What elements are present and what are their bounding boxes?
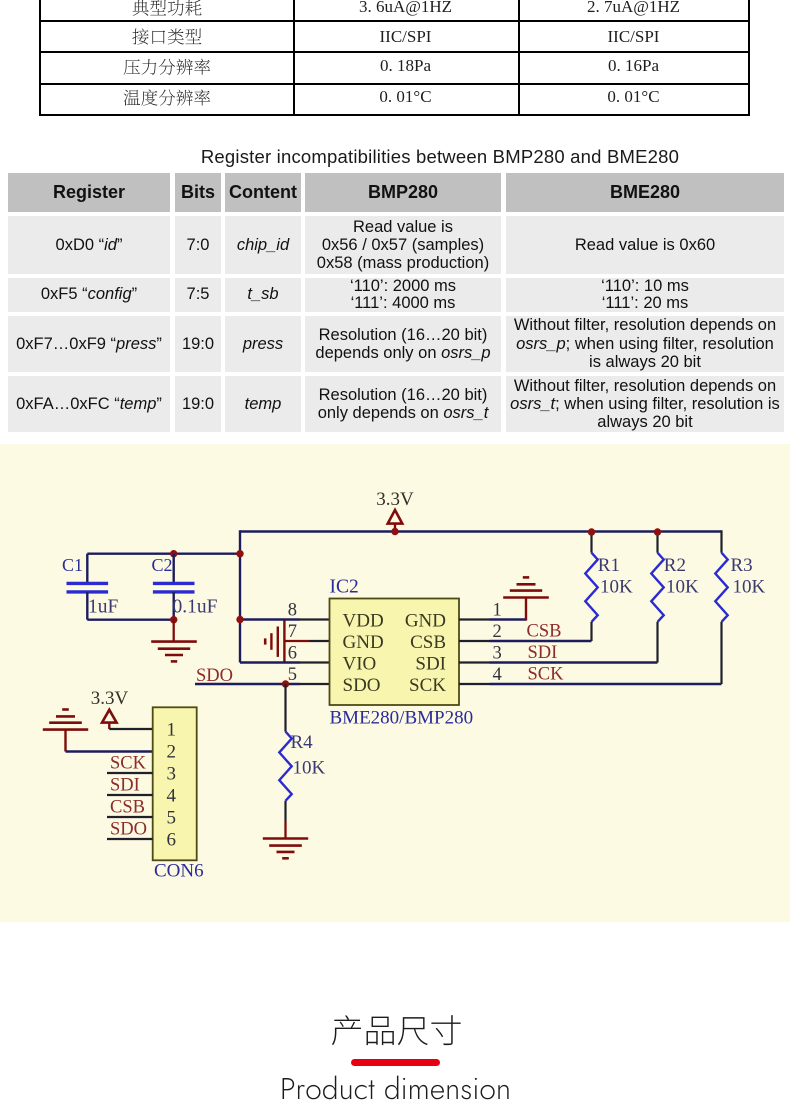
junction rail/R1 — [588, 528, 595, 535]
pin 8 — [300, 618, 330, 620]
pin 2 — [459, 640, 490, 642]
wire VDD pin8 — [240, 618, 300, 620]
wire cap bottom — [87, 619, 173, 621]
wire trunk left vertical — [239, 530, 241, 662]
resistor R3 — [715, 530, 727, 684]
wire pin1 to ground — [490, 618, 527, 620]
schematic background — [0, 444, 790, 922]
junction trunk/pin8 — [236, 616, 243, 623]
ground under R4 — [263, 822, 308, 859]
pin 3 — [459, 661, 490, 663]
junction rail/R2 — [654, 528, 661, 535]
resistor R2 — [651, 533, 663, 663]
ground at pin1 (inverted) — [503, 577, 549, 620]
CON6 pin 6 stub — [107, 838, 153, 840]
resistor R4 — [279, 684, 291, 822]
CON6 pin 5 stub — [107, 816, 153, 818]
wire CSB — [490, 640, 592, 642]
pin 1 — [459, 618, 490, 620]
wire SDO — [195, 683, 300, 685]
connector CON6 box — [153, 707, 197, 860]
junction trunk/cap-top — [236, 550, 243, 557]
wire 3.3V rail — [240, 530, 722, 532]
capacitor C1 — [67, 554, 109, 620]
CON6 pin 4 stub — [107, 794, 153, 796]
junction C2 top — [170, 550, 177, 557]
capacitor C2 — [153, 554, 195, 620]
resistor R1 — [585, 533, 597, 641]
wire CON6 pin1 — [109, 728, 152, 730]
IC IC2 box (BME280/BMP280) — [330, 599, 460, 706]
pin 7 — [309, 640, 330, 642]
wire SDI — [490, 661, 658, 663]
CON6 pin 3 stub — [107, 772, 153, 774]
wire cap top — [87, 553, 240, 555]
pin 4 — [459, 683, 490, 685]
wire CON6 pin2 — [66, 750, 153, 752]
ground under C2 — [151, 620, 197, 662]
ground at CON6 pin2 (inverted) — [43, 710, 88, 752]
wire SCK — [490, 683, 722, 685]
junction SDO/R4 — [282, 680, 289, 687]
power symbol 3.3V (CON6) — [91, 688, 129, 729]
wire VIO pin6 — [240, 661, 300, 663]
junction cap bottom / ground — [170, 616, 177, 623]
pin 5 — [300, 683, 330, 685]
ground at pin7 (rotated) — [265, 620, 309, 661]
junction on rail at 3.3V — [391, 528, 398, 535]
pin 6 — [300, 661, 330, 663]
power symbol 3.3V (top) — [376, 489, 414, 532]
